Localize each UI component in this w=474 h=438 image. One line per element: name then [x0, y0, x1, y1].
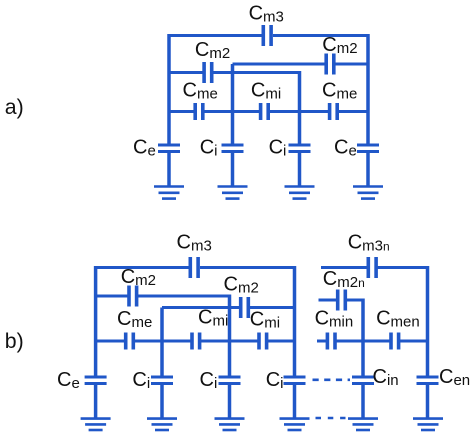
- ground node1 b: [81, 419, 111, 430]
- ground node1 a: [154, 187, 184, 199]
- wire Cm2 left row a (node1 to node3): [169, 71, 300, 74]
- wire node3 vertical a: [298, 71, 302, 186]
- capacitor Ci (a, node3) plates: [289, 145, 311, 152]
- capacitor Cm2 (a, left) plates: [204, 62, 212, 83]
- wire node1 vertical b: [94, 266, 98, 418]
- wire node3 vertical b: [228, 295, 232, 419]
- wire Cm3n row (stub to node6): [321, 266, 429, 269]
- capacitor Cmen plates: [391, 333, 399, 350]
- capacitor Cin (node5) plates: [352, 377, 374, 384]
- ground node6 b: [413, 419, 443, 430]
- wire Cm2n row (stub to node5): [319, 299, 365, 302]
- dashed continuation wire (node level): [313, 378, 351, 381]
- ground node4 a: [353, 187, 383, 199]
- capacitor Ce (a, node4) plates: [357, 145, 379, 152]
- capacitor Ce (a, node1) plates: [158, 145, 180, 152]
- ground node2 a: [218, 187, 248, 199]
- capacitor Cm2 (a, right) plates: [326, 54, 334, 75]
- capacitor Cen (node6) plates: [417, 377, 439, 384]
- svg-text:b): b): [5, 329, 24, 353]
- wire bus row a (node1 to node4, through Cme, Cmi, Cme): [169, 110, 368, 113]
- capacitor Cm3n plates: [368, 257, 376, 278]
- capacitor Ce (b, node1) plates: [85, 377, 107, 384]
- capacitor Cm3 (b) plates: [190, 257, 198, 278]
- wire bus row b (node1 to node4, through Cme, Cmi, Cmi): [96, 340, 295, 343]
- svg-text:a): a): [5, 95, 24, 119]
- wire Cm2 right row b (node2 to node4): [162, 306, 296, 309]
- capacitor Ci (a, node2) plates: [222, 145, 244, 152]
- wire node2 vertical a: [231, 64, 235, 186]
- ground node4 b: [280, 419, 310, 430]
- wire node2 vertical b: [160, 308, 164, 419]
- wire Cmin/Cmen bus (stub through node5 to node6): [317, 340, 428, 343]
- capacitor Cm2 (b, left) plates: [129, 286, 137, 307]
- wire top row a (node1 to node4, through Cm3): [169, 34, 370, 37]
- wire node6 vertical b: [426, 266, 430, 418]
- capacitor Cmi (b, middle) plates: [192, 333, 200, 350]
- capacitor Cme (a, left) plates: [195, 103, 203, 120]
- wire node5 vertical b: [361, 299, 365, 419]
- wire Cm2 right row a (node2 to node4): [233, 63, 370, 66]
- ground node2 b: [147, 419, 177, 430]
- capacitor Cm2 (b, right) plates: [241, 297, 249, 318]
- capacitor Cmi (b, right) plates: [259, 333, 267, 350]
- capacitor Ci (b, node3) plates: [219, 377, 241, 384]
- ground node5 b: [348, 419, 378, 430]
- wire node4 vertical b: [293, 266, 297, 418]
- capacitor Cmin plates: [327, 333, 335, 350]
- capacitor Cme (a, right) plates: [330, 103, 338, 120]
- ground node3 b: [215, 419, 245, 430]
- wire node4 vertical a: [366, 34, 370, 186]
- wire top row b (node1 to node4, through Cm3): [96, 266, 296, 269]
- capacitor Ci (b, node4) plates: [284, 377, 306, 384]
- dashed continuation wire (ground level): [316, 417, 346, 420]
- ground node3 a: [285, 187, 315, 199]
- capacitor Cm3 (a) plates: [263, 25, 271, 46]
- capacitor Cmi (a) plates: [261, 103, 269, 120]
- wire node1 vertical a: [167, 34, 171, 186]
- capacitor Cm2n plates: [338, 290, 346, 311]
- capacitor Cme (b) plates: [126, 333, 134, 350]
- capacitor Ci (b, node2) plates: [151, 377, 173, 384]
- wire Cm2 left row b (node1 to node3): [96, 295, 230, 298]
